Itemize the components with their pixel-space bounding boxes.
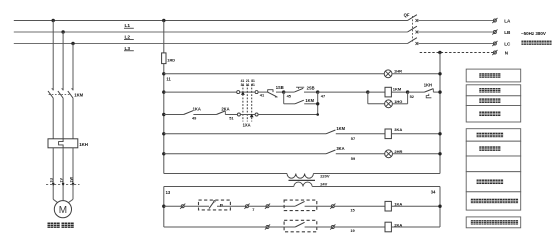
relay coil 2KA: [385, 222, 391, 232]
wire L2 phase line: [14, 31, 408, 33]
svg-text:21: 21: [246, 79, 250, 83]
node row D right: [438, 132, 441, 135]
connector 1XA socket row B left: [237, 91, 240, 94]
terminal LA: [493, 19, 496, 22]
svg-text:1KA: 1KA: [193, 106, 201, 111]
svg-text:M: M: [59, 205, 67, 216]
node row D left: [162, 132, 165, 135]
wire 1HG branch left drop: [367, 92, 369, 104]
wire L1 phase line: [14, 20, 408, 22]
node 52: [406, 90, 409, 93]
node row A left: [162, 72, 165, 75]
thermal overload relay 1KH element box: [48, 139, 78, 148]
wire 1SB to node 45: [276, 91, 284, 93]
node row C left: [162, 113, 165, 116]
contact 2KA (NC): [216, 111, 225, 115]
wire terminal to contact box row2: [269, 226, 295, 228]
contact 1KM auxiliary (NO) row D: [326, 130, 335, 134]
svg-text:11: 11: [166, 76, 171, 81]
wire 2KA coil to right edge: [391, 226, 440, 228]
connector plug arrow row C: [250, 114, 254, 118]
wire 220V line left segment: [164, 173, 287, 175]
label water pump motor (shui beng dian ji): [47, 223, 53, 228]
svg-text:1KH: 1KH: [424, 83, 432, 88]
wire contact out row2: [305, 226, 332, 228]
transformer T core: [289, 179, 316, 181]
legend box: legend spacer box: [466, 156, 521, 172]
svg-text:~50Hz 380V: ~50Hz 380V: [521, 31, 546, 36]
contactor 1KM linkage (dashed): [49, 93, 71, 95]
contact in box row1 (NO): [295, 201, 304, 206]
wire 1KH to right bus: [433, 91, 440, 93]
terminal LB: [493, 31, 496, 34]
node L3 tap for motor branch: [71, 42, 74, 45]
wire row E: [164, 153, 326, 155]
circuit breaker QF pole 1: [408, 15, 417, 21]
wire connector row C: [240, 114, 255, 116]
node row E left: [162, 152, 165, 155]
connector 1XA socket row C right: [255, 113, 258, 116]
node fuse tap on L1: [162, 19, 165, 22]
wire connector row B: [240, 91, 256, 93]
pressure switch contact P: [209, 202, 214, 209]
node row A right: [438, 72, 441, 75]
wire row C to riser: [258, 114, 318, 116]
svg-text:1KM: 1KM: [336, 126, 345, 131]
wire row B to connector: [164, 91, 237, 93]
wire motor feeder V: [62, 148, 64, 201]
wire riser to node 47: [317, 92, 319, 114]
wire between terminals: [248, 205, 266, 207]
fuse 1RD: [162, 53, 166, 64]
terminal row1 d: [331, 205, 334, 208]
lamp 2HR overload indication: [385, 150, 393, 158]
wire QF pole3 to terminal LC: [418, 43, 493, 45]
circuit breaker QF pole 2: [408, 26, 417, 32]
wire motor branch phase U drop: [52, 21, 54, 91]
legend box: power indication (dian yuan zhi shi): [466, 69, 521, 82]
svg-text:81: 81: [251, 79, 255, 83]
wire L1 to fuse: [163, 21, 165, 53]
wire right control bus (N): [439, 53, 441, 174]
wire motor branch phase V drop: [62, 32, 64, 90]
legend box: overload indication (guo zai zhi shi): [466, 141, 521, 156]
wire row C to 1KA contact: [164, 114, 184, 116]
contact 3KA (NO) row E: [326, 150, 335, 154]
node 47: [316, 90, 319, 93]
node L1 tap for motor branch: [52, 19, 55, 22]
svg-text:57: 57: [351, 136, 355, 141]
wire self-hold branch from node 45: [283, 92, 285, 104]
cable boundary dashed line: [46, 184, 80, 186]
relay coil 3KA: [385, 129, 391, 139]
wire to 1KM coil: [368, 91, 385, 93]
push button 2SB start (NO): [284, 91, 295, 93]
legend box: auto run (zi dong yun xing): [466, 106, 521, 123]
label incoming from distribution cabinet (zi pei dian gui yin lai): [521, 41, 526, 45]
circuit breaker QF linkage (dashed): [411, 16, 413, 42]
svg-text:1XA: 1XA: [243, 123, 251, 128]
wire 24V line left segment: [164, 186, 294, 188]
node row B left: [162, 90, 165, 93]
wire pole W lower segment: [72, 98, 74, 139]
svg-text:41: 41: [241, 79, 245, 83]
wire lower box left edge: [163, 187, 165, 228]
svg-text:2SB: 2SB: [307, 86, 315, 91]
wire row2 from left edge: [164, 226, 266, 228]
wire slants into motor: [53, 199, 58, 203]
pressure controller dashed box: [199, 200, 231, 210]
svg-text:1RD: 1RD: [167, 58, 175, 63]
svg-text:2HR: 2HR: [394, 149, 402, 154]
wire coil to node 52: [391, 91, 407, 93]
wire motor branch phase W drop: [72, 44, 74, 91]
svg-text:1V: 1V: [60, 177, 64, 182]
wire 1KA coil to right edge: [391, 205, 440, 207]
svg-text:1KM: 1KM: [305, 98, 314, 103]
connector 1XA socket row C left: [237, 113, 240, 116]
svg-text:1HR: 1HR: [394, 68, 402, 73]
svg-text:34: 34: [431, 190, 436, 195]
wire terminal to pressure switch box: [184, 205, 209, 207]
contact 1KA (NO): [184, 111, 193, 115]
node lower row1 right: [438, 205, 441, 208]
legend box: run indication (yun xing zhi shi): [466, 96, 521, 106]
svg-text:3KA: 3KA: [336, 146, 344, 151]
wire motor feeder U: [52, 148, 54, 200]
wire lower box right edge: [439, 187, 441, 228]
thermal relay 1KH heater symbol: [59, 139, 64, 148]
svg-text:3KA: 3KA: [394, 127, 402, 132]
svg-text:1SB: 1SB: [276, 85, 284, 90]
node row E right: [438, 152, 441, 155]
wire 3KA coil to right bus: [391, 133, 440, 135]
wire 1KA to 2KA: [193, 114, 216, 116]
wire to 3KA coil: [336, 133, 385, 135]
terminal row2 a: [266, 226, 269, 229]
wire N (dashed): [420, 52, 494, 54]
node L2 tap for motor branch: [61, 30, 64, 33]
svg-text:1W: 1W: [69, 176, 73, 182]
push button 1SB stop (NC): [267, 90, 273, 92]
terminal row1 c: [266, 205, 269, 208]
node self-hold riser: [316, 102, 319, 105]
node N tap: [438, 51, 441, 54]
svg-text:47: 47: [321, 94, 325, 99]
legend box: mains-frequency run (gong pin yun xing): [466, 85, 521, 96]
wire QF pole1 to terminal LA: [418, 20, 493, 22]
svg-text:220V: 220V: [320, 174, 330, 179]
wire to stop button: [258, 91, 268, 93]
connector 1XA socket row B right: [255, 91, 258, 94]
connector 1XA dashed pin lines: [242, 84, 244, 121]
wire pole V lower segment: [62, 98, 64, 139]
circuit breaker QF pole 3: [408, 38, 417, 44]
external contact dashed box row2: [284, 220, 317, 232]
wire 2HR to right bus: [393, 153, 441, 155]
wire to 2KA coil: [334, 226, 385, 228]
legend box: intermediate relay (zhong jian ji dian qi): [466, 129, 521, 142]
wire row A right: [392, 73, 440, 75]
contact 1KM auxiliary (NO self-hold): [295, 100, 304, 104]
svg-text:1KH: 1KH: [79, 142, 88, 147]
svg-text:1U: 1U: [50, 177, 54, 182]
wire 2KA to connector: [225, 114, 237, 116]
wire fuse to control bus: [163, 64, 165, 74]
wire terminal to contact box row1: [269, 205, 295, 207]
wire row1 to terminal: [164, 205, 182, 207]
terminal row1 a: [181, 205, 184, 208]
wire left control bus: [163, 74, 165, 174]
wire 1HG branch right rise: [392, 103, 407, 105]
lamp 1HR power indication: [384, 70, 392, 78]
terminal row1 b: [246, 205, 249, 208]
wire P contact out: [217, 205, 246, 207]
svg-text:31: 31: [241, 83, 245, 87]
wire to 1KA coil: [334, 205, 385, 207]
svg-text:13: 13: [166, 190, 171, 195]
legend box: control transformer (kong zhi bian ya qi): [466, 172, 521, 192]
wire QF pole2 to terminal LB: [418, 31, 493, 33]
terminal row2 b: [331, 226, 334, 229]
connector plug arrow row B: [241, 91, 245, 95]
contact in box row2 (NO): [295, 222, 304, 227]
svg-text:LA: LA: [504, 19, 511, 24]
svg-text:1KM: 1KM: [393, 86, 402, 91]
motor M1 circle: [54, 201, 71, 218]
node 45: [282, 90, 285, 93]
legend box: pressure controller signal input (ya li kong zhi qi xin hao shu ru): [466, 192, 521, 210]
contactor coil 1KM: [385, 87, 391, 97]
contactor 1KM main poles: [52, 89, 54, 91]
wire self-hold to riser: [304, 103, 318, 105]
wire row A: [164, 73, 384, 75]
cable direction arrows: [52, 183, 55, 186]
svg-text:24V: 24V: [320, 181, 327, 186]
thermal contact 1KH (NC) in row B: [408, 91, 425, 93]
wire pole U lower segment: [52, 98, 54, 139]
node row B right: [438, 90, 441, 93]
wire L3 phase line: [14, 43, 408, 45]
terminal LC: [493, 42, 496, 45]
svg-text:1KM: 1KM: [74, 92, 83, 97]
wire contact out row1: [305, 205, 332, 207]
svg-text:2KA: 2KA: [221, 106, 229, 111]
wire 2SB to node 47: [304, 91, 318, 93]
svg-text:91: 91: [251, 83, 255, 87]
svg-text:7: 7: [252, 207, 254, 212]
node lower row1 left: [162, 205, 165, 208]
svg-text:11: 11: [246, 83, 250, 87]
transformer T primary winding (220V): [287, 174, 313, 179]
legend box: fire pump start signal input (xiao fang beng qi dong xin hao shu ru): [466, 217, 521, 228]
svg-text:QF: QF: [404, 13, 410, 18]
wire row D: [164, 133, 326, 135]
wire row B to coil branch node: [318, 91, 368, 93]
relay coil 1KA: [385, 201, 391, 211]
node lamp branch left: [366, 90, 369, 93]
svg-text:LB: LB: [504, 30, 511, 35]
external contact dashed box row1: [284, 200, 317, 211]
terminal N: [493, 51, 496, 54]
transformer T secondary winding (24V): [294, 182, 312, 186]
svg-text:LC: LC: [504, 42, 511, 47]
svg-text:1HG: 1HG: [394, 99, 402, 104]
lamp 1HG run indication: [385, 100, 393, 108]
wire motor feeder W: [72, 148, 74, 200]
wire to 2HR lamp: [336, 153, 385, 155]
wire 220V line right segment: [313, 173, 440, 175]
wire 24V line right segment: [312, 186, 440, 188]
